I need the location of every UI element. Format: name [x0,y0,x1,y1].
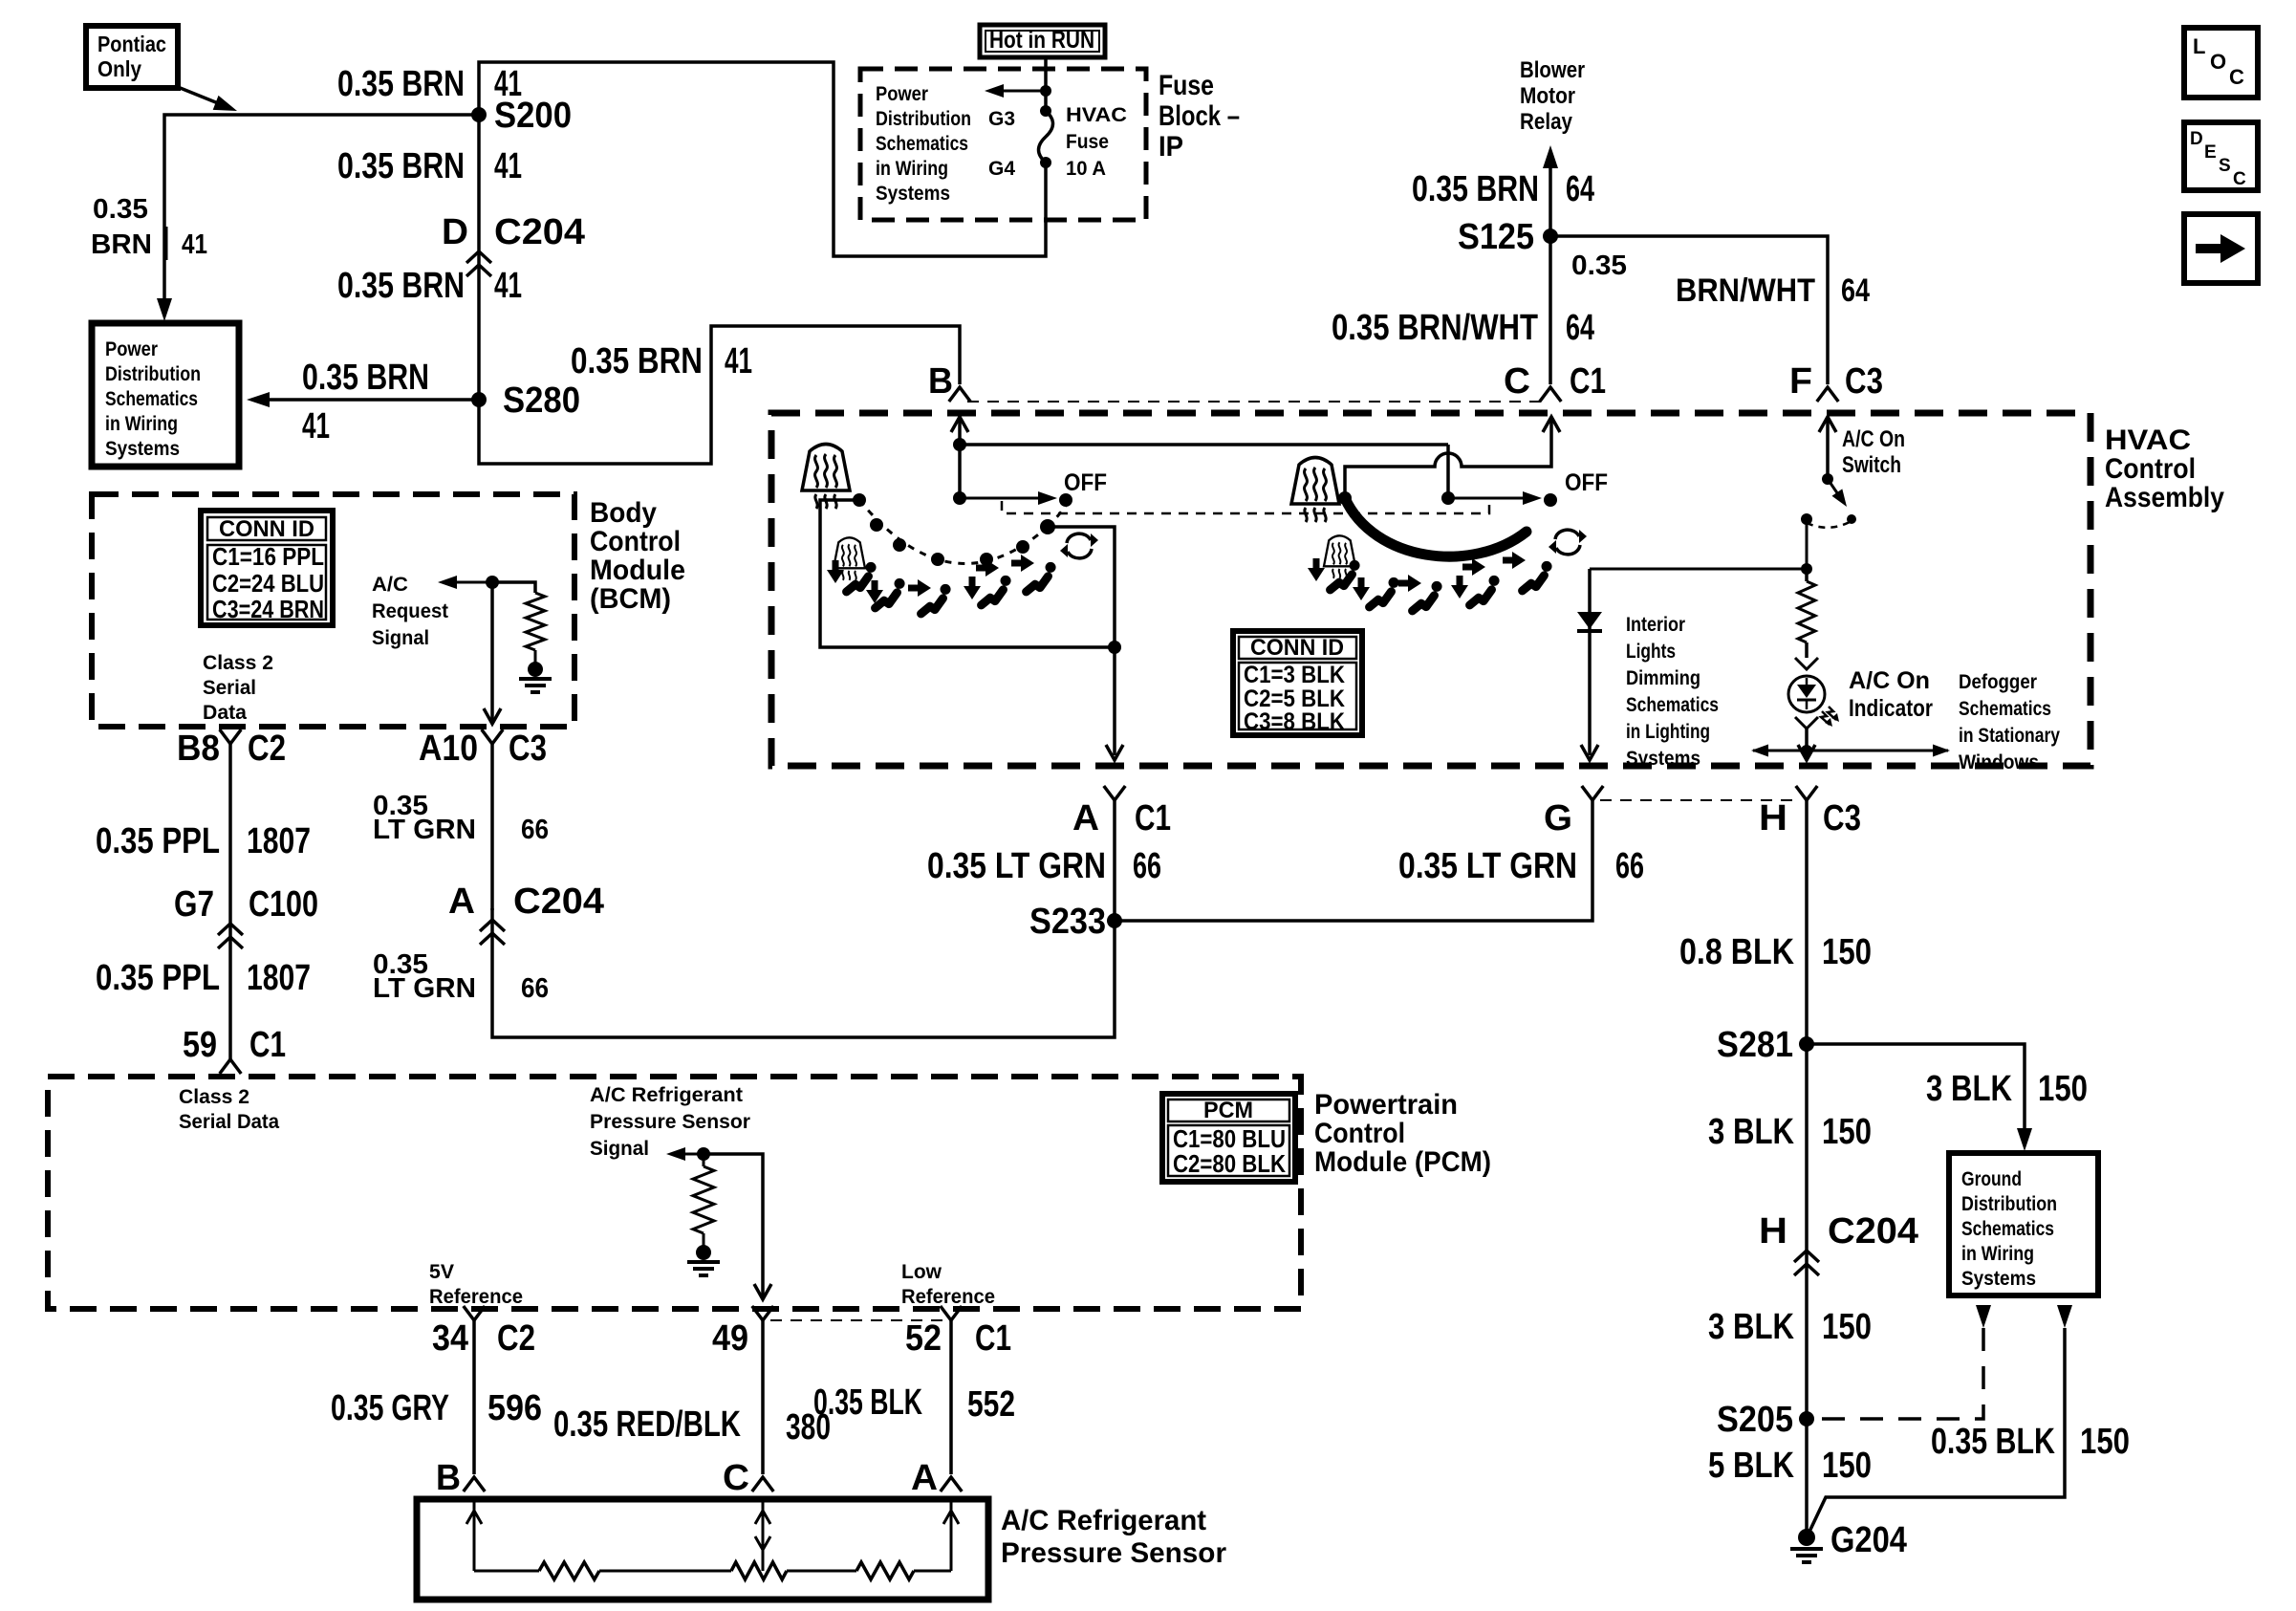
blower switch defrost icon (top) [1291,458,1339,523]
A/C Refrigerant Pressure Sensor Signal label [590,1084,750,1160]
svg-text:C: C [723,1458,749,1498]
svg-text:B8: B8 [177,729,220,769]
svg-text:41: 41 [302,406,330,446]
svg-text:S: S [2219,156,2231,176]
label 0.8 BLK 150 [1679,932,1872,972]
label 0.35 LT GRN 66 (A) [927,846,1161,886]
wire 49 to sensor C [761,1320,765,1474]
pressure sensor signal node and arrow [666,1147,710,1161]
svg-text:C2=80 BLK: C2=80 BLK [1173,1149,1286,1178]
svg-text:Distribution: Distribution [876,108,971,130]
svg-text:Pontiac: Pontiac [97,32,166,56]
Blower Motor Relay label [1520,57,1585,135]
svg-text:Schematics: Schematics [1959,698,2051,720]
svg-text:A/C Refrigerant: A/C Refrigerant [1001,1505,1206,1536]
connector H C204 (inline) [1759,1211,1918,1275]
svg-text:150: 150 [2038,1069,2088,1109]
svg-text:OFF: OFF [1565,469,1608,496]
mode selector wiper wire [820,493,1115,647]
svg-text:Defogger: Defogger [1959,671,2037,693]
arrow to Blower Motor Relay [1543,145,1558,236]
mode icons row (left switch) [827,537,1056,614]
HVAC Fuse 10 A element [988,104,1127,180]
svg-text:Module: Module [590,555,685,586]
CONN ID table (HVAC) [1233,631,1362,735]
svg-text:10 A: 10 A [1066,158,1106,180]
svg-text:Request: Request [372,600,448,622]
svg-text:C2: C2 [497,1318,535,1359]
arrow G into HVAC box (interior lights feed) [1581,569,1598,760]
Ground Distribution Schematics box [1949,1153,2098,1295]
blower switch OFF arrow [1448,469,1608,507]
svg-text:Power: Power [876,83,928,105]
svg-text:Class 2: Class 2 [203,652,273,674]
svg-text:Systems: Systems [876,183,950,205]
Power Distribution Schematics note (fuse block) [876,83,971,205]
splice S200 [471,96,572,136]
wire 34 to sensor B [472,1320,476,1474]
wire S125 to connector F C3 [1550,236,1828,384]
connector A C1 [1072,786,1171,838]
label 0.35 RED/BLK 380 [553,1404,831,1448]
svg-text:Systems: Systems [105,438,180,460]
splice S205 [1717,1400,1814,1440]
wire H C3 to G204 [1805,800,1809,1537]
A/C switch output node [1590,513,1812,575]
connector 49 [712,1306,773,1359]
svg-text:B: B [436,1458,461,1498]
svg-text:Data: Data [203,702,247,724]
svg-text:F: F [1789,361,1812,402]
label 0.35 BRN 41 (top) [337,64,522,104]
sensor internal network [466,1499,959,1579]
svg-text:C: C [2233,169,2246,189]
wire A10 C3 to A C204 [490,744,494,910]
Low Reference label [901,1261,995,1308]
svg-text:0.35: 0.35 [93,194,148,225]
label 3 BLK 150 (main lower) [1708,1307,1872,1347]
svg-text:C204: C204 [513,882,604,922]
label 0.35 BRN/WHT 64 (C branch) [1332,308,1594,348]
svg-text:1807: 1807 [247,958,311,998]
svg-text:Interior: Interior [1626,614,1685,636]
svg-text:0.35 BLK: 0.35 BLK [813,1382,922,1423]
svg-text:C204: C204 [1828,1211,1918,1252]
svg-text:C: C [2229,65,2244,89]
svg-text:0.35 LT GRN: 0.35 LT GRN [927,846,1106,886]
svg-text:HVAC: HVAC [1066,104,1127,126]
svg-text:G: G [1544,798,1572,838]
svg-text:34: 34 [432,1318,468,1359]
connector B C1 [928,361,970,402]
svg-text:66: 66 [521,815,549,845]
svg-text:Serial: Serial [203,677,256,699]
svg-text:A: A [911,1458,938,1498]
A/C Refrigerant Pressure Sensor box [417,1499,988,1600]
svg-text:Only: Only [97,56,141,81]
label 0.35 BRN 41 (left vertical) [91,194,207,260]
A/C On Switch blade [1807,473,1856,528]
svg-text:150: 150 [1822,932,1872,972]
svg-text:S205: S205 [1717,1400,1793,1440]
blower switch wiper wire to connector C [1338,417,1560,505]
label 3 BLK 150 (branch) [1926,1069,2088,1109]
splice S281 [1717,1025,1814,1065]
wire A/C request to connector A10 C3 [484,582,501,724]
connector G7 C100 (inline) [174,884,318,948]
A/C Refrigerant Pressure Sensor label [1001,1505,1226,1569]
recirculation icon (left switch) [1060,533,1098,558]
svg-text:Switch: Switch [1842,452,1901,478]
label 0.35 LT GRN 66 (lower) [373,949,549,1004]
svg-text:A/C On: A/C On [1849,667,1930,694]
svg-text:C1: C1 [975,1318,1011,1359]
svg-text:150: 150 [2080,1422,2130,1462]
dashed connector link B to C [967,401,1543,403]
arrow B into HVAC box [951,417,968,445]
arrow F into HVAC box / A-C On Switch [1819,417,1836,479]
5V Reference label [429,1261,523,1308]
connector A C204 (inline) [448,882,604,945]
svg-text:66: 66 [1615,846,1644,886]
svg-text:Assembly: Assembly [2105,482,2224,513]
svg-text:Signal: Signal [590,1138,649,1160]
svg-text:0.35 BRN/WHT: 0.35 BRN/WHT [1332,308,1538,348]
svg-text:BRN/WHT: BRN/WHT [1676,272,1815,309]
svg-text:C2: C2 [248,729,286,769]
svg-text:Control: Control [1314,1118,1405,1149]
svg-text:64: 64 [1841,272,1870,309]
mode switch OFF arrow [960,469,1107,507]
A/C On Indicator LED [1788,676,1839,727]
Pontiac Only pointer arrow [178,87,237,111]
svg-text:64: 64 [1566,169,1594,209]
wire S125 to connector C C1 [1549,236,1552,384]
svg-text:Dimming: Dimming [1626,667,1700,689]
svg-text:Relay: Relay [1520,109,1573,135]
svg-text:S200: S200 [494,96,572,136]
blower speed icons row [1308,535,1552,611]
svg-text:0.35 LT GRN: 0.35 LT GRN [1398,846,1577,886]
sensor connector C [723,1458,773,1498]
svg-text:0.35 BRN: 0.35 BRN [571,341,703,381]
svg-text:0.8 BLK: 0.8 BLK [1679,932,1794,972]
svg-text:Signal: Signal [372,627,429,649]
svg-text:Indicator: Indicator [1849,695,1933,722]
svg-text:0.35 BRN: 0.35 BRN [337,64,465,104]
svg-text:49: 49 [712,1318,748,1359]
label 3 BLK 150 (main upper) [1708,1112,1872,1152]
label 0.35 BRN 41 (riser) [571,341,752,381]
svg-text:41: 41 [182,229,207,260]
A/C request node and arrow [438,576,499,589]
svg-text:0.35 BRN: 0.35 BRN [337,266,465,306]
svg-text:D: D [2190,129,2203,149]
svg-text:1807: 1807 [247,821,311,861]
Fuse Block - IP dashed box [860,69,1146,220]
label 0.35 PPL 1807 (lower) [96,958,311,998]
BCM pull-up resistor to ground [492,582,552,692]
wire box to G204 (0.35 BLK 150) [1809,1328,2065,1534]
svg-text:0.35 RED/BLK: 0.35 RED/BLK [553,1404,741,1445]
dashed connector link 49 to 52 [770,1319,943,1321]
svg-text:5 BLK: 5 BLK [1708,1446,1794,1486]
Class 2 Serial Data label (BCM) [203,652,273,724]
svg-text:C1=3 BLK: C1=3 BLK [1244,662,1345,688]
Hot in RUN box [980,25,1105,57]
wire S200 to S280 [477,115,481,400]
svg-text:0.35 BRN: 0.35 BRN [337,146,465,186]
svg-text:C3=24 BRN: C3=24 BRN [212,595,324,623]
wire S281 to Ground Distribution box [1807,1044,2032,1151]
svg-text:OFF: OFF [1064,469,1107,496]
svg-text:Systems: Systems [1626,748,1700,770]
arrow into Power Distribution box (left) [157,298,172,321]
label 0.35 BRN 41 (third) [337,266,522,306]
splice S280 [471,381,580,421]
blower switch feed riser [1441,445,1455,505]
A/C Request Signal label [372,574,448,649]
svg-text:IP: IP [1159,131,1183,163]
ground G204 [1790,1520,1907,1562]
svg-text:B: B [928,361,953,402]
label 0.35 LT GRN 66 (G) [1398,846,1644,886]
svg-text:LT GRN: LT GRN [373,973,476,1004]
svg-text:41: 41 [494,266,522,306]
svg-text:C100: C100 [249,884,318,925]
svg-text:S233: S233 [1029,902,1106,942]
wire/arrow S280 to Power Distribution box [247,392,479,407]
dashed wire box to S205 [1807,1328,1983,1419]
svg-text:C204: C204 [494,212,585,252]
svg-text:H: H [1759,798,1787,838]
svg-text:Windows: Windows [1959,751,2039,773]
connector 52 C1 [905,1306,1011,1359]
svg-text:3 BLK: 3 BLK [1708,1112,1794,1152]
Defogger Schematics label [1959,671,2060,773]
svg-text:Fuse: Fuse [1066,131,1109,153]
connector A10 C3 [419,729,547,769]
svg-text:Blower: Blower [1520,57,1585,83]
svg-text:0.35 PPL: 0.35 PPL [96,821,220,861]
label 5 BLK 150 [1708,1446,1872,1486]
wire signal to connector 49 [704,1154,771,1299]
svg-text:G204: G204 [1830,1520,1907,1560]
svg-text:150: 150 [1822,1112,1872,1152]
junction at B feed [953,438,966,451]
svg-text:552: 552 [967,1384,1015,1425]
svg-text:52: 52 [905,1318,942,1359]
svg-text:64: 64 [1566,308,1594,348]
svg-text:G4: G4 [988,158,1015,180]
svg-text:C3: C3 [1823,798,1861,838]
svg-text:Module (PCM): Module (PCM) [1314,1146,1491,1178]
svg-text:S280: S280 [503,381,580,421]
svg-text:Distribution: Distribution [105,363,201,385]
label 0.35 GRY 596 [331,1388,542,1428]
svg-text:Block –: Block – [1159,100,1240,132]
svg-text:41: 41 [725,341,752,381]
label 0.35 PPL 1807 (upper) [96,821,311,861]
svg-text:596: 596 [487,1388,542,1428]
HVAC Control Assembly dashed box [771,413,2090,766]
svg-text:C2=24 BLU: C2=24 BLU [212,569,324,598]
junction + arrow to power distribution note [985,84,1051,98]
svg-text:in Wiring: in Wiring [876,158,948,180]
svg-text:Fuse: Fuse [1159,70,1214,101]
svg-text:Schematics: Schematics [105,388,198,410]
svg-text:Motor: Motor [1520,83,1575,109]
svg-text:A10: A10 [419,729,478,769]
CONN ID table (BCM) [201,511,333,625]
svg-text:0.35 BRN: 0.35 BRN [302,358,429,398]
svg-text:Reference: Reference [901,1286,995,1308]
svg-text:C1: C1 [249,1025,286,1065]
svg-text:Schematics: Schematics [1626,694,1719,716]
svg-text:in Lighting: in Lighting [1626,721,1710,743]
svg-text:PCM: PCM [1203,1098,1253,1123]
svg-text:Body: Body [590,497,657,529]
svg-text:Systems: Systems [1961,1268,2036,1290]
svg-text:E: E [2204,142,2217,163]
wire S233 to connector G [1115,800,1592,921]
label 0.35 LT GRN 66 (upper) [373,791,549,845]
svg-text:66: 66 [521,973,549,1004]
svg-text:in Wiring: in Wiring [105,413,178,435]
DESC reference box [2184,122,2258,190]
svg-text:Low: Low [901,1261,942,1283]
forward arrow box [2184,214,2258,283]
Fuse Block - IP label [1159,70,1240,163]
blower switch thick arc [1345,498,1527,556]
wire A C1 to S233 [1113,800,1116,921]
wire A C204 down and over to S233 [492,908,1115,1037]
svg-text:G3: G3 [988,108,1015,130]
Interior Lights Dimming label [1626,614,1719,770]
svg-text:C1: C1 [1135,798,1171,838]
sensor connector B [436,1458,485,1498]
svg-text:C3: C3 [1845,361,1883,402]
mode selector output wire to A C1 [1048,527,1123,760]
svg-text:C3=8 BLK: C3=8 BLK [1244,708,1345,735]
connector C C1 [1504,361,1606,402]
svg-text:C1=16 PPL: C1=16 PPL [212,542,324,571]
svg-text:D: D [442,212,468,252]
Body Control Module dashed box [92,494,574,727]
arrows out of Ground Distribution box [1976,1305,2072,1328]
svg-text:Schematics: Schematics [1961,1218,2054,1240]
recirculation icon (blower switch) [1549,530,1587,555]
svg-text:O: O [2210,50,2226,74]
svg-text:(BCM): (BCM) [590,583,671,615]
label 0.35 BRN 41 (S280 arrow) [302,358,429,446]
svg-text:150: 150 [1822,1446,1872,1486]
mode switch feed riser [953,445,966,505]
bus wire from B junction to blower switch riser [960,443,1448,446]
svg-text:Class 2: Class 2 [179,1086,249,1108]
indicator resistor [1795,569,1818,669]
svg-text:A/C Refrigerant: A/C Refrigerant [590,1084,743,1106]
svg-text:H: H [1759,1211,1787,1252]
wire 52 to sensor A [949,1320,953,1474]
svg-text:Ground: Ground [1961,1168,2022,1190]
Powertrain Control Module dashed box [48,1077,1301,1309]
svg-text:A: A [1072,798,1099,838]
svg-text:41: 41 [494,146,522,186]
svg-text:0.35 BRN: 0.35 BRN [1412,169,1539,209]
svg-text:C1: C1 [1570,361,1606,402]
wire from Hot in RUN into fuse [1044,56,1048,111]
Pontiac Only callout box [86,26,178,88]
sensor connector A [911,1458,962,1498]
svg-text:0.35 GRY: 0.35 GRY [331,1388,449,1428]
PCM conn table [1162,1094,1295,1182]
connector F C3 [1789,361,1883,402]
connector G [1544,786,1603,838]
splice S125 [1458,217,1558,257]
svg-text:CONN ID: CONN ID [1250,635,1344,661]
svg-text:150: 150 [1822,1307,1872,1347]
svg-text:A/C: A/C [372,574,408,596]
connector H C3 [1759,786,1861,838]
dashed connector link G to H [1600,799,1799,801]
svg-text:S281: S281 [1717,1025,1793,1065]
svg-text:66: 66 [1133,846,1161,886]
svg-text:C3: C3 [509,729,547,769]
svg-text:Control: Control [590,526,681,557]
svg-text:Schematics: Schematics [876,133,968,155]
svg-text:G7: G7 [174,884,214,925]
label 0.35 BLK 150 [1931,1422,2130,1462]
label 0.35 BRN/WHT 64 (F branch) [1571,250,1870,309]
mechanical linkage dashed line between switches [1002,501,1489,513]
svg-text:A/C On: A/C On [1842,426,1905,452]
defogger tap line [1795,717,1818,760]
BCM label [590,497,685,615]
svg-text:Pressure Sensor: Pressure Sensor [1001,1537,1226,1569]
svg-text:L: L [2193,34,2205,58]
svg-text:HVAC: HVAC [2105,425,2191,456]
svg-text:Serial Data: Serial Data [179,1111,279,1133]
svg-text:59: 59 [183,1025,217,1065]
svg-text:in Stationary: in Stationary [1959,725,2060,747]
mode selector dashed arc with position dots [859,500,1067,566]
mode selector defrost icon (top) [802,445,850,510]
svg-text:C: C [1504,361,1530,402]
svg-text:5V: 5V [429,1261,454,1283]
svg-text:Hot in RUN: Hot in RUN [989,27,1094,54]
LOC reference box [2184,28,2258,98]
svg-text:0.35 BLK: 0.35 BLK [1931,1422,2055,1462]
diode (interior lights dimming) [1577,612,1602,631]
svg-text:CONN ID: CONN ID [219,516,314,542]
svg-text:BRN: BRN [91,229,152,260]
svg-text:Lights: Lights [1626,641,1676,663]
svg-text:Powertrain: Powertrain [1314,1089,1458,1121]
svg-text:0.35 PPL: 0.35 PPL [96,958,220,998]
splice S233 [1029,902,1122,942]
wire 0.35 BRN 41 from S200 to Pontiac branch [164,115,479,308]
svg-text:Reference: Reference [429,1286,523,1308]
svg-text:Power: Power [105,338,158,360]
Class 2 Serial Data label (PCM) [179,1086,279,1133]
svg-text:A: A [448,882,475,922]
svg-text:3 BLK: 3 BLK [1708,1307,1794,1347]
wire B8 to 59 C1 (class 2 serial data) [228,744,232,1059]
Power Distribution Schematics in Wiring Systems box (left) [92,323,239,467]
connector 34 C2 [432,1306,535,1359]
wire S280 to connector B (0.35 BRN 41) [479,326,960,464]
